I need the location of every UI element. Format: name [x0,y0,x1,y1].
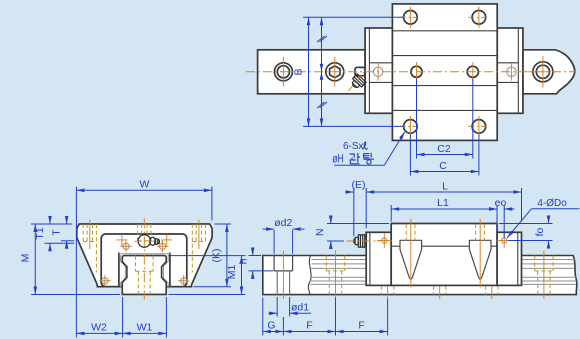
h dimension [249,248,274,278]
sectioned rail hole (d2/d1) [274,256,293,271]
d1 dimension [268,297,311,317]
block body (side) [391,224,497,286]
middle tapped hole (hidden) [138,224,151,241]
grease nipple (side) [354,235,365,247]
rail hole centerlines (side) [283,251,544,300]
svg-text:M1: M1 [226,265,238,280]
hidden rail holes under block [381,286,498,295]
end plate inner contour [101,234,187,287]
C2 dimension [417,79,473,159]
svg-text:C: C [439,160,447,172]
bolt funnel right [469,240,491,279]
svg-text:øH: øH [332,151,344,165]
rail left segment (plan) [258,50,366,94]
W2 W1 dimensions [76,297,166,338]
B dimension [303,17,403,126]
bolt funnel left [400,240,422,279]
rail hole 1 (counterbore) [274,63,292,81]
grease nipple (plan, angled) [349,74,366,91]
svg-text:L1: L1 [437,197,449,209]
hidden rail hole 2 [326,256,344,295]
W dimension [76,187,212,338]
left end cap (plan) [365,28,392,113]
svg-text:h: h [238,258,250,264]
svg-text:L: L [442,181,448,193]
G F F dimensions [263,298,388,336]
hidden tapped holes above funnels [406,224,484,240]
svg-text:B: B [293,68,305,75]
block body (plan) [392,4,497,141]
funnel centerlines [411,219,480,288]
hidden rail hole right [535,256,553,295]
d2 dimension [263,229,305,254]
right end cap (plan) [497,28,523,113]
svg-text:F: F [358,320,364,332]
T1 dimension [45,217,75,251]
svg-text:T: T [51,229,63,236]
seal lip contour (gray) [119,254,170,287]
rail right segment with break line (plan) [523,50,575,94]
left end cap (side) [366,232,391,285]
svg-text:M: M [20,254,32,263]
svg-text:W: W [140,179,150,191]
svg-text:ød1: ød1 [291,302,309,314]
block tapped holes: middle pair [411,66,422,77]
hole crosshairs (plan) [283,7,558,137]
cross marks [116,234,172,245]
4-Do leader [507,209,580,238]
rail hole 2 (counterbore) [326,63,344,81]
nipple centerline (plan, diagonal) [349,69,367,92]
rail bolt hole (hidden) [136,256,154,295]
svg-text:4-ØDo: 4-ØDo [537,198,567,209]
svg-text:N: N [314,229,326,237]
leader 6-Sxl / oH through [334,132,405,166]
svg-text:ød2: ød2 [274,217,292,229]
svg-text:C2: C2 [437,143,451,155]
centerlines (front) [90,219,199,300]
rail break line (side) [308,256,311,295]
fo dimension [499,216,553,248]
wing tapped hole left (hidden) [83,224,96,273]
svg-text:W1: W1 [137,321,153,333]
hangul kwan [349,153,360,164]
rail hole right (counterbore) [533,62,553,82]
rail band (side) with right break [263,256,577,295]
block silhouette fill [77,224,212,287]
grease port box left [369,62,392,64]
K dimension [194,224,232,287]
Do holes [382,238,387,243]
M1 dimension [169,256,246,295]
grease nipple (front) [138,235,159,247]
rail groove lines [310,260,577,285]
eo dimension [487,205,515,238]
grease port box right [497,62,518,64]
grease nipple boss (plan) [355,67,365,75]
T dimension [61,217,74,249]
right end seal line [517,28,519,113]
svg-text:eo: eo [495,197,507,209]
L dimension [366,188,521,222]
ball circles [102,243,187,284]
main centerline (plan) [246,71,576,73]
svg-text:6-Sx: 6-Sx [343,141,364,152]
C dimension [410,134,479,175]
svg-text:F: F [306,320,312,332]
ball crosshairs [99,241,189,287]
left end seal line [368,28,370,113]
right end cap (side) [497,232,522,285]
rail cross-section [122,256,166,295]
M dimension [31,224,120,295]
internal line [391,245,497,247]
svg-text:W2: W2 [91,321,107,333]
L1 dimension [391,205,497,232]
grease port circle right [507,67,516,76]
svg-text:G: G [267,320,275,332]
block tapped holes: corners [404,10,418,24]
nipple centerline (side) [347,240,381,242]
svg-text:(E): (E) [352,179,366,191]
wing tapped hole right (hidden) [192,224,205,273]
shared top extension [31,223,72,225]
grease port circle left [373,67,382,76]
svg-text:fo: fo [534,227,546,236]
E dimension [345,188,366,236]
block outline [77,224,212,287]
hangul tong [363,153,374,164]
N dimension [327,216,389,249]
block inner lines [392,30,497,32]
